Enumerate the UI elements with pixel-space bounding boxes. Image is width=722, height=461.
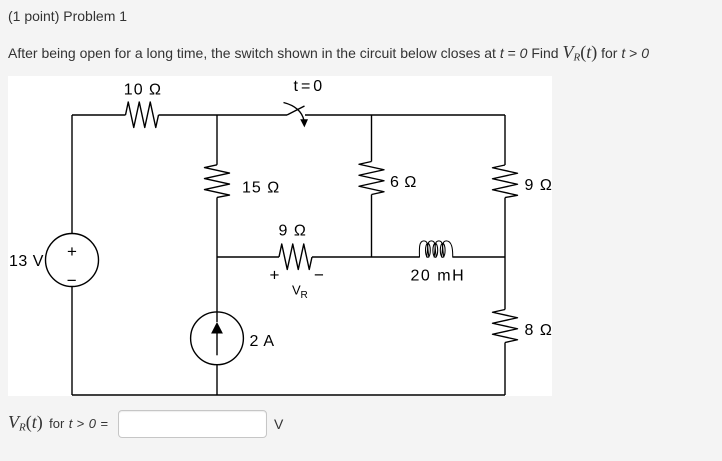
wire branch2 upper (371, 115, 373, 162)
wire branch1 middle through circle to arrow tip (216, 197, 218, 322)
wire left rail lower (71, 287, 73, 396)
svg-text:6 Ω: 6 Ω (390, 174, 417, 191)
svg-text:9 Ω: 9 Ω (525, 177, 553, 194)
current source I1 circle (191, 312, 244, 365)
wire right rail middle (504, 198, 506, 310)
inductor L1 20mH humps (419, 241, 452, 258)
inductor L1 loop ellipses (426, 243, 431, 257)
svg-text:9 Ω: 9 Ω (279, 223, 307, 240)
svg-text:2 A: 2 A (250, 333, 275, 350)
svg-text:10 Ω: 10 Ω (124, 82, 162, 99)
svg-text:t=0: t=0 (294, 78, 326, 95)
svg-text:13 V: 13 V (9, 253, 44, 270)
current source I1 arrowhead (211, 322, 223, 334)
wire branch2 lower (371, 195, 373, 258)
switch arrowhead (300, 119, 308, 127)
wire branch1 lower (216, 365, 218, 395)
svg-text:+: + (270, 266, 280, 285)
svg-text:+: + (67, 242, 77, 261)
wire bottom (72, 394, 505, 396)
resistor R5 9ohm right (493, 165, 518, 198)
wire top middle (159, 114, 288, 116)
resistor R2 15ohm (205, 165, 230, 198)
wire top right (305, 114, 505, 116)
svg-text:−: − (67, 271, 77, 290)
svg-text:−: − (314, 266, 324, 285)
resistor R1 10ohm (126, 102, 159, 128)
switch blade (287, 106, 305, 115)
wire right rail upper (504, 115, 506, 165)
resistor R6 8ohm (493, 310, 518, 343)
wire right rail lower (504, 343, 506, 396)
svg-text:20 mH: 20 mH (411, 268, 466, 285)
answer row (8, 412, 108, 438)
switch arc (284, 103, 305, 121)
svg-text:R: R (301, 290, 308, 301)
wire branch1 upper (216, 115, 218, 165)
resistor R4 6ohm (359, 162, 384, 195)
svg-text:15 Ω: 15 Ω (242, 180, 280, 197)
wire left rail upper (71, 115, 73, 234)
svg-text:8 Ω: 8 Ω (525, 322, 553, 339)
wire mid left (217, 256, 279, 258)
wire mid center (312, 256, 420, 258)
wire mid right (453, 256, 506, 258)
resistor R3 9ohm horizontal (279, 244, 312, 270)
wire top-left horizontal (72, 114, 126, 116)
voltage source V1 circle (46, 234, 99, 287)
current source I1 arrow shaft (216, 333, 218, 355)
